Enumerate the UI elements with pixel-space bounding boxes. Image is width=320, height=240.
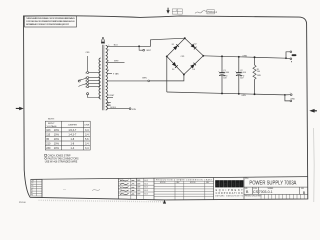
svg-text:1-8: 1-8 — [70, 143, 74, 146]
jumper terminal 3 — [87, 80, 89, 82]
svg-text:REV: REV — [177, 182, 180, 184]
svg-text:D 8: D 8 — [31, 183, 33, 185]
sheet border frame — [24, 16, 308, 200]
svg-text:WHT: WHT — [114, 60, 119, 62]
svg-text:12: 12 — [108, 103, 110, 105]
svg-text:3: 3 — [85, 77, 86, 79]
wire terminal4 to primary tap — [89, 83, 100, 85]
svg-text:LINE: LINE — [84, 125, 89, 127]
svg-text:210: 210 — [46, 143, 51, 146]
svg-text:9-9-70: 9-9-70 — [144, 194, 148, 196]
svg-text:10%: 10% — [54, 138, 60, 141]
title block row lines — [244, 187, 308, 194]
svg-text:12,000: 12,000 — [223, 72, 229, 74]
connector tab GRN — [129, 108, 131, 110]
svg-text:PRINTED CIRCUIT REV.: PRINTED CIRCUIT REV. — [245, 196, 262, 198]
svg-text:115: 115 — [46, 134, 51, 137]
microfilm ruler ticks — [39, 200, 163, 203]
svg-text:14 BLU: 14 BLU — [110, 107, 117, 109]
svg-text:8: 8 — [108, 70, 109, 72]
wire positive bus — [203, 56, 286, 58]
connector tab WHT — [143, 49, 145, 51]
node bridge left vertex — [166, 55, 168, 57]
svg-text:i: i — [221, 182, 222, 188]
svg-text:7: 7 — [108, 60, 109, 62]
node negative output junction — [284, 94, 286, 96]
registration arrow top — [166, 8, 169, 14]
svg-text:12,000: 12,000 — [240, 72, 246, 74]
node bridge right vertex — [202, 55, 204, 57]
note box top-left — [25, 16, 77, 27]
wire junction to connector — [139, 46, 143, 50]
svg-text:ORN: ORN — [242, 55, 247, 57]
svg-text:CINCH JONES STRIP: CINCH JONES STRIP — [48, 155, 71, 157]
revision pencil mark positive output — [292, 54, 297, 56]
svg-text:10%: 10% — [54, 143, 60, 146]
svg-text:10%: 10% — [54, 134, 60, 137]
registration arrow right — [309, 109, 317, 113]
svg-text:GRN: GRN — [241, 95, 246, 97]
svg-text:10%: 10% — [54, 129, 60, 132]
svg-text:l: l — [241, 182, 242, 188]
svg-text:D1: D1 — [172, 44, 174, 46]
transformer T1 terminal marks top — [102, 37, 104, 39]
drawing index table lower-left — [31, 180, 42, 196]
digital logo block — [215, 180, 243, 188]
jumper terminal 4 — [87, 83, 89, 85]
terminal negative upper — [290, 94, 292, 96]
svg-text:5: 5 — [108, 45, 109, 47]
svg-text:CORPORATION: CORPORATION — [216, 192, 243, 195]
svg-text:3,4: 3,4 — [85, 129, 89, 132]
svg-text:PS: PS — [31, 194, 33, 196]
wire secondary tap 7 WHT stub — [107, 61, 124, 63]
svg-text:C 2: C 2 — [31, 187, 33, 189]
wire secondary bottom 14 BLU to GRN tab — [107, 108, 129, 110]
svg-text:9-9-70: 9-9-70 — [144, 190, 148, 192]
title strip dividers — [42, 177, 244, 199]
svg-text:3,4: 3,4 — [85, 143, 89, 146]
jumper terminal 1 — [87, 72, 89, 74]
jumper terminal 2 — [87, 77, 89, 79]
svg-text:6: 6 — [108, 49, 109, 51]
svg-text:103: 103 — [46, 129, 51, 132]
svg-text:B: B — [246, 190, 249, 194]
svg-text:1-4: 1-4 — [70, 147, 74, 150]
microfilm header boxes top — [172, 9, 214, 14]
svg-text:7: 7 — [85, 87, 86, 89]
svg-text:7003-0-1: 7003-0-1 — [207, 11, 217, 14]
svg-text:9-9-70: 9-9-70 — [144, 187, 148, 189]
svg-text:100: 100 — [257, 71, 260, 73]
wire positive output lower — [286, 57, 290, 60]
wire terminal3 to primary tap — [89, 80, 100, 82]
svg-text:3,4: 3,4 — [85, 147, 89, 150]
svg-text:d: d — [216, 182, 219, 188]
signature squiggles — [120, 180, 134, 195]
svg-text:BE TREATED ACCORDINGLY. COPYRI: BE TREATED ACCORDINGLY. COPYRIGHT BY DIG… — [26, 23, 70, 26]
svg-text:JUMPER: JUMPER — [68, 125, 77, 127]
svg-text:1-8: 1-8 — [70, 138, 74, 141]
transformer T1 secondary winding — [106, 45, 108, 110]
svg-text:ECO NO: ECO NO — [190, 182, 196, 184]
svg-text:i: i — [229, 182, 230, 188]
svg-text:5,6: 5,6 — [85, 138, 89, 141]
node bridge top vertex — [184, 37, 186, 39]
stray pencil mark in strip — [92, 189, 100, 192]
wire secondary tap 9 TAN stub — [107, 73, 112, 75]
svg-text:D 4: D 4 — [31, 185, 33, 187]
pin numbers for jumper strip — [85, 72, 86, 88]
svg-text:PS 100: PS 100 — [19, 202, 26, 204]
registration arrow left — [16, 107, 24, 111]
resistor R1 — [253, 56, 256, 95]
svg-text:1-5,3-7: 1-5,3-7 — [68, 129, 77, 132]
signature block — [118, 178, 136, 199]
junction on BLU wire — [138, 45, 140, 47]
svg-text:9 TAN: 9 TAN — [113, 73, 119, 76]
wire terminal5 to primary tap — [89, 86, 100, 88]
AC line input plug — [78, 78, 86, 87]
svg-text:D3: D3 — [172, 69, 174, 71]
svg-text:11 WHT: 11 WHT — [108, 95, 115, 97]
value label R1 — [257, 69, 261, 77]
svg-text:CS: CS — [253, 190, 259, 194]
svg-text:9-8-70: 9-8-70 — [144, 183, 148, 185]
diode D4 — [190, 63, 196, 69]
svg-text:g: g — [224, 182, 227, 188]
svg-text:a: a — [236, 182, 239, 188]
node positive output junction — [285, 57, 287, 59]
svg-text:3,4: 3,4 — [85, 134, 89, 137]
svg-text:10%: 10% — [54, 147, 60, 150]
svg-text:1-4,3-7: 1-4,3-7 — [68, 134, 77, 137]
notes below table — [45, 155, 79, 163]
production conversion chart — [154, 181, 214, 199]
svg-text:6: 6 — [85, 84, 86, 86]
svg-text:9-4-70: 9-4-70 — [144, 180, 148, 182]
jumper terminal 5 — [87, 86, 89, 88]
svg-text:230: 230 — [46, 147, 51, 150]
svg-text:10W: 10W — [257, 75, 261, 77]
svg-text:WHT: WHT — [146, 50, 151, 52]
wire primary bottom return — [88, 95, 100, 98]
svg-text:D2: D2 — [194, 44, 196, 46]
svg-text:D4: D4 — [193, 69, 195, 71]
diode D2 — [191, 44, 197, 50]
svg-text:ECO NO: ECO NO — [160, 182, 166, 184]
connector tab BRN — [148, 80, 150, 82]
svg-text:GRD: GRD — [291, 98, 296, 100]
registration arrow bottom — [163, 200, 166, 204]
svg-text:QTY: QTY — [31, 180, 34, 182]
terminal negative lower — [290, 100, 292, 102]
wire BRN connector to bridge bottom — [150, 75, 184, 81]
wire negative output lower — [285, 95, 290, 101]
diode D3 — [172, 62, 178, 68]
svg-text:7003-0-1: 7003-0-1 — [259, 190, 273, 194]
date column block — [137, 178, 155, 199]
terminal positive upper — [290, 51, 292, 53]
svg-text:POWER SUPPLY 7003A: POWER SUPPLY 7003A — [249, 181, 297, 187]
wire secondary tap 12 stub — [107, 102, 110, 104]
svg-text:THIS SCHEMATIC IS FURNISHED ON: THIS SCHEMATIC IS FURNISHED ONLY FOR TES… — [26, 17, 76, 20]
terminal positive lower — [290, 58, 292, 60]
svg-text:B 1: B 1 — [31, 190, 33, 192]
wire secondary tap 13 stub — [107, 104, 110, 106]
capacitor C2 — [236, 56, 242, 95]
wire CB1 to terminal 1 — [87, 56, 89, 72]
svg-text:NOTE:: NOTE: — [48, 118, 55, 120]
svg-text:EQUIPMENT: EQUIPMENT — [216, 190, 244, 192]
capacitor C1 — [219, 55, 225, 94]
wire negative bus — [167, 92, 285, 95]
svg-text:FASTON TAB CONNECTORS: FASTON TAB CONNECTORS — [48, 157, 79, 160]
wire secondary tap 5 BLU to bridge top — [107, 38, 184, 46]
svg-text:CR1: CR1 — [181, 56, 185, 58]
wire terminal1 to primary tap — [89, 72, 100, 74]
wire secondary tap 11 WHT stub — [107, 96, 113, 98]
wire positive output upper — [286, 52, 290, 58]
wire bridge left vertex down — [166, 56, 168, 92]
transformer T1 primary winding — [99, 58, 101, 99]
svg-text:BRN: BRN — [142, 77, 147, 79]
svg-text:INPUT: INPUT — [48, 123, 55, 125]
svg-text:GRN: GRN — [132, 109, 137, 111]
wire terminal2 to primary tap — [89, 77, 100, 79]
svg-text:VOLTAGE: VOLTAGE — [47, 125, 58, 128]
diode D1 — [173, 44, 179, 50]
svg-text:USE W/ #18 STRANDED WIRE: USE W/ #18 STRANDED WIRE — [45, 160, 78, 163]
wire secondary tap 10 to BRN connector — [107, 80, 147, 82]
svg-text:BLU: BLU — [114, 44, 118, 46]
input voltage table — [45, 121, 90, 150]
node bridge bottom vertex — [183, 74, 185, 76]
wire negative output upper — [285, 94, 290, 96]
transformer T1 core — [102, 45, 104, 111]
title strip top edge — [30, 177, 307, 180]
svg-text:1: 1 — [85, 72, 86, 74]
svg-text:5: 5 — [85, 81, 86, 83]
svg-text:REV: REV — [206, 182, 209, 184]
scan artifact right edge — [313, 128, 316, 202]
svg-text:TITLE: TITLE — [245, 178, 249, 180]
svg-text:PURPOSES. THE CIRCUITS ARE PRO: PURPOSES. THE CIRCUITS ARE PROPRIETARY I… — [26, 20, 75, 23]
bridge rectifier CR1 outline — [167, 38, 204, 74]
